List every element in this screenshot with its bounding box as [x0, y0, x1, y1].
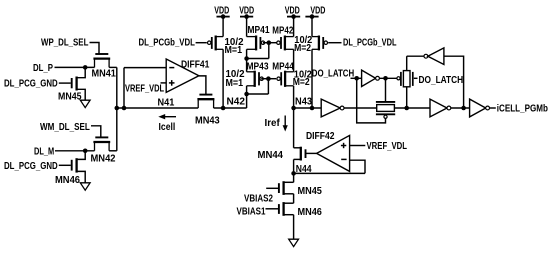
- svg-text:MN46: MN46: [298, 207, 323, 218]
- svg-text:MP43: MP43: [247, 62, 269, 73]
- svg-text:DL_PCGb_VDL: DL_PCGb_VDL: [343, 37, 397, 48]
- svg-text:Icell: Icell: [159, 122, 176, 133]
- svg-text:VBIAS2: VBIAS2: [244, 194, 273, 205]
- svg-text:VREF_VDL: VREF_VDL: [367, 141, 408, 152]
- svg-text:DO_LATCH: DO_LATCH: [312, 68, 354, 79]
- svg-text:M=2: M=2: [293, 77, 310, 88]
- svg-text:DL_PCG_GND: DL_PCG_GND: [4, 78, 58, 89]
- svg-text:DL_M: DL_M: [34, 146, 54, 157]
- svg-text:MP44: MP44: [272, 62, 294, 73]
- svg-text:MP42: MP42: [272, 25, 293, 36]
- svg-text:DL_PCGb_VDL: DL_PCGb_VDL: [139, 38, 195, 49]
- svg-text:MN46: MN46: [55, 175, 81, 186]
- svg-text:VBIAS1: VBIAS1: [237, 206, 266, 217]
- svg-text:M=1: M=1: [225, 45, 243, 56]
- svg-text:MN42: MN42: [91, 154, 117, 165]
- svg-text:MN44: MN44: [258, 150, 284, 161]
- svg-text:WM_DL_SEL: WM_DL_SEL: [40, 122, 90, 133]
- svg-text:N41: N41: [158, 98, 175, 109]
- svg-text:DIFF42: DIFF42: [306, 131, 335, 142]
- svg-text:M=2: M=2: [294, 43, 311, 54]
- svg-text:DL_P: DL_P: [33, 63, 53, 74]
- svg-text:MN45: MN45: [58, 92, 82, 103]
- svg-text:MN43: MN43: [195, 115, 220, 126]
- svg-text:VREF_VDL: VREF_VDL: [125, 83, 164, 94]
- svg-text:DO_LATCH: DO_LATCH: [419, 75, 464, 86]
- svg-text:M=1: M=1: [226, 78, 244, 89]
- svg-text:Iref: Iref: [265, 118, 281, 129]
- svg-text:MP41: MP41: [248, 25, 270, 36]
- svg-text:DL_PCG_GND: DL_PCG_GND: [4, 161, 58, 172]
- svg-text:DIFF41: DIFF41: [181, 60, 210, 71]
- svg-text:iCELL_PGMb: iCELL_PGMb: [497, 103, 548, 114]
- svg-text:N43: N43: [295, 97, 313, 108]
- svg-text:MN41: MN41: [92, 69, 117, 80]
- svg-text:WP_DL_SEL: WP_DL_SEL: [41, 38, 88, 49]
- svg-text:MN45: MN45: [298, 186, 323, 197]
- svg-text:N42: N42: [227, 97, 246, 108]
